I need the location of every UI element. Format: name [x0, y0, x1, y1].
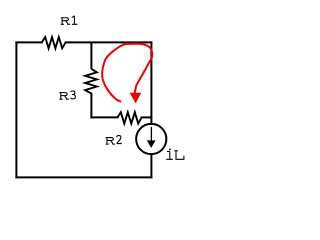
- label R3: [59, 91, 75, 99]
- mesh current loop arrow (red): [102, 44, 152, 102]
- resistor R1: [42, 37, 66, 48]
- current source arrow shaft: [150, 127, 152, 142]
- wire middle branch lower: [90, 94, 92, 118]
- wire right vertical lower: [150, 154, 152, 177]
- resistor R2: [118, 112, 142, 123]
- wire middle branch upper: [90, 42, 92, 69]
- current source arrowhead: [147, 140, 156, 148]
- current source iL circle: [136, 124, 166, 154]
- wire bottom: [16, 176, 151, 178]
- wire left vertical: [15, 42, 17, 177]
- wire R2 left segment: [91, 116, 117, 118]
- label R2: [106, 136, 122, 145]
- mesh loop arrowhead (red): [130, 93, 142, 104]
- label R1: [61, 16, 78, 25]
- wire right vertical upper: [150, 42, 152, 124]
- resistor R3: [85, 69, 97, 94]
- wire top-right segment: [66, 41, 152, 43]
- wire top-left segment: [16, 41, 41, 43]
- label iL: [166, 149, 184, 160]
- wire R2 right segment: [142, 116, 152, 118]
